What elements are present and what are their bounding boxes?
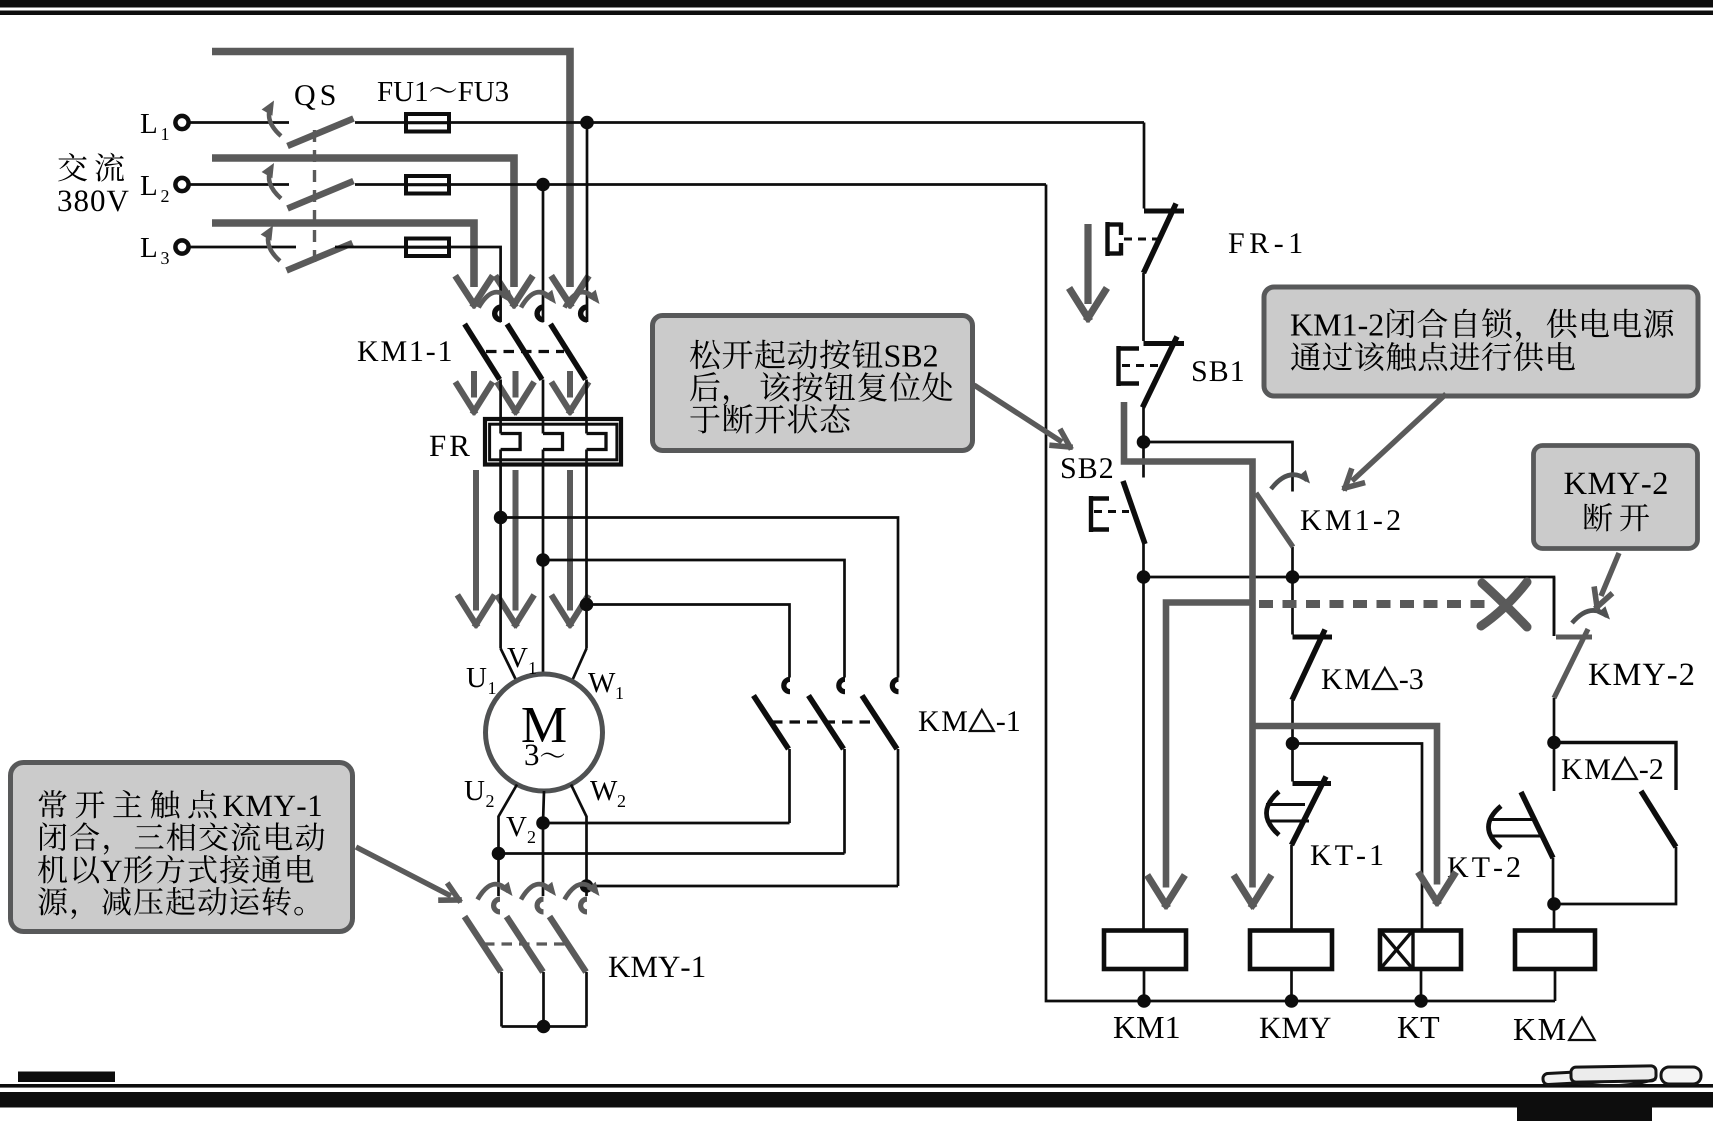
node E [1547, 736, 1561, 750]
node A below SB1 [1137, 435, 1151, 449]
label KT coil [1398, 1017, 1420, 1038]
border frame bottom lines [0, 1084, 1713, 1088]
button SB1 blade [1143, 337, 1178, 408]
wire node B to node C to KMY-2 branch [1144, 577, 1555, 636]
wire U2 to KMdelta-1 pole2 [499, 852, 845, 855]
wire KMdelta-1 pole1 to V2 node [788, 749, 791, 823]
wire L2 bus to control return column [449, 183, 1046, 186]
contactor KM1-1 pole1 blade [465, 324, 500, 380]
wire FR-1 to SB1 [1142, 273, 1145, 341]
wire L2 to QS [190, 183, 289, 186]
wire FR pole1 down [499, 465, 502, 649]
wire node F to KMdelta coil [1553, 904, 1556, 931]
gray arrow into KT coil [1420, 875, 1437, 902]
wire node D to KT branch [1293, 744, 1423, 931]
contactor KM1-1 pole3 terminal hook [581, 307, 587, 320]
contactor KMY-1 pole1 blade [465, 917, 502, 973]
wire KMdelta-2 branch bottom [1554, 847, 1676, 904]
switch QS pole2 arc arrow [269, 169, 281, 199]
wire KMdelta-1 pole2 to U2 node [843, 749, 846, 854]
wire KMY-1 pole2 down [542, 972, 545, 1027]
border frame bottom-right tab [1517, 1107, 1652, 1121]
label KMdelta-3 [1322, 669, 1342, 689]
wire KMY-2 to node E [1553, 698, 1556, 743]
label U1 [467, 668, 487, 687]
label SB1 [1193, 361, 1206, 381]
callout box KMY-1 star start (left) [11, 763, 353, 932]
contactor KM1-1 link (dashed) [486, 350, 564, 353]
wire W2 to KMdelta-1 pole3 [587, 885, 899, 888]
coil KMdelta [1515, 931, 1595, 970]
contactor KMY-1 pole3 terminal hook [581, 899, 587, 912]
contactor KMdelta-1 link (dashed) [772, 720, 880, 723]
motor label M [522, 708, 565, 742]
contact KMdelta-2 blade [1641, 791, 1676, 847]
wire KM1-1 pole2 to FR [542, 380, 545, 434]
wire gray feed L1 (highlighted) [212, 52, 570, 288]
SB1 actuator link (dashed) [1122, 364, 1161, 367]
wire L2 return column and bottom rail [1046, 185, 1555, 1002]
label L1 [141, 114, 156, 133]
wire SB1 to node A [1142, 408, 1145, 443]
contactor KM1-1 pole2 arc arrow [521, 292, 552, 307]
contactor KMY-1 pole3 arc arrow [565, 884, 596, 899]
button SB1 stop bar [1144, 341, 1185, 346]
gray current arrows below FR [473, 470, 479, 611]
label FR [430, 436, 445, 456]
switch QS pole3 blade [287, 243, 353, 271]
terminal L2 [175, 178, 188, 191]
contactor KM1-1 pole1 terminal hook [495, 307, 501, 320]
wire KM1-1 pole1 to FR [499, 380, 502, 434]
wire node A to KM1-2 branch [1144, 442, 1293, 492]
label KMdelta coil [1514, 1019, 1536, 1040]
wire motor V2 out [543, 791, 544, 896]
chalk pieces decoration [1543, 1066, 1701, 1086]
gray current arrow at FR-1 [1084, 224, 1091, 304]
wire FR pole2 down [542, 465, 545, 674]
relay FR box [485, 419, 621, 465]
wire motor W2 out [571, 785, 587, 897]
contact KMY-2 seat tick (gray) [1556, 635, 1592, 640]
wire L3 to QS [190, 246, 296, 249]
node B [1137, 570, 1151, 584]
node U2 [492, 847, 506, 861]
coil KT with X box [1380, 931, 1461, 970]
contactor KMdelta-1 pole1 blade [754, 696, 789, 750]
contactor KMY-1 pole2 blade [507, 917, 544, 973]
node F [1547, 897, 1561, 911]
contactor KM1-1 pole2 blade [507, 324, 542, 380]
node KMY rail [1285, 994, 1299, 1008]
switch QS pole1 arc arrow [269, 106, 281, 136]
wire KM1-2 lower [1291, 547, 1294, 577]
wire motor U2 out [499, 785, 518, 897]
label KMdelta-1 [919, 711, 939, 731]
motor M 3~ circle [486, 674, 603, 791]
relay FR heater element pole2 [543, 434, 563, 450]
wire SB2 to node B [1142, 544, 1145, 577]
node L1 branch [580, 116, 594, 130]
wire KMdelta-1 pole3 to W2 node [897, 749, 900, 886]
wire U1 branch to KMdelta-1 pole3 [501, 518, 898, 678]
callout box KM1-2 self-lock (right) [1264, 287, 1698, 396]
label W1 [588, 673, 615, 692]
label KMY-1 [609, 957, 630, 977]
contact KT-2 upper wire [1553, 743, 1556, 792]
switch QS pole3 arc arrow [268, 231, 280, 261]
wire L1 control column down [1143, 123, 1146, 209]
contact KT-1 blade [1292, 777, 1327, 846]
node KM1 rail [1137, 994, 1151, 1008]
gray branch to KT coil [1253, 726, 1438, 885]
contact KT-1 delay symbol [1267, 792, 1280, 836]
arrow from KMY-2 box to KMY-2 contact [1601, 553, 1619, 596]
X mark on blocked path [1482, 583, 1527, 627]
wire KT-2 to node F [1552, 858, 1555, 904]
contact KMY-2 arc arrow [1572, 610, 1607, 623]
contact KM1-2 blade (gray, closed) [1256, 493, 1293, 547]
node V2 [536, 816, 550, 830]
wire L3 to KM1-1 pole1 [449, 247, 501, 322]
callout box KMY-2 open (small right) [1534, 446, 1698, 549]
label KMY coil [1260, 1018, 1281, 1038]
relay FR heater element pole3 [587, 434, 607, 450]
contact KMY-2 upper wire [1553, 577, 1556, 636]
contact FR-1 stop bar [1144, 209, 1184, 214]
label KMY-2 [1589, 664, 1611, 685]
callout box SB2 released (middle) [653, 316, 973, 451]
wire KT coil to rail [1420, 969, 1423, 1001]
wire QS1 to FU1 [355, 121, 406, 124]
wire KMY-1 pole1 down [500, 972, 503, 1027]
wire KMdelta-3 to node D [1291, 700, 1294, 744]
label L2 [141, 176, 156, 195]
contactor KMY-1 pole1 arc arrow [478, 884, 509, 899]
label KT-1 [1311, 845, 1331, 865]
contact KMdelta-2 branch top [1554, 743, 1676, 791]
wire KT-1 to KMY coil [1290, 845, 1293, 931]
node star point [537, 1020, 551, 1034]
label KM1-1 [358, 341, 378, 361]
arrow from middle box to SB2 [974, 385, 1062, 442]
label QS [295, 85, 315, 110]
wire W1 into motor [572, 649, 587, 682]
contactor KMY-1 link (dashed) [484, 942, 565, 945]
gray arrow into KM1 coil [1149, 878, 1166, 905]
node L2 branch [536, 178, 550, 192]
contactor KMY-1 pole2 terminal hook [537, 899, 543, 912]
button SB2 actuator [1089, 496, 1093, 532]
contact FR-1 blade [1144, 204, 1177, 274]
contactor KM1-1 pole3 arc arrow [565, 292, 596, 307]
terminal L3 [175, 240, 188, 253]
label FR-1 [1229, 233, 1244, 253]
contact KT-1 upper wire and tick [1291, 744, 1294, 782]
label U2 [465, 781, 485, 800]
button SB1 actuator [1116, 346, 1120, 386]
contactor KMdelta-1 pole2 blade [809, 696, 844, 750]
gray dashed blocked path to KMY-2 [1259, 600, 1492, 608]
button SB2 blade [1123, 481, 1145, 544]
wire L1 bus to control column [449, 121, 1144, 124]
wire W1 branch to KMdelta-1 pole1 [587, 605, 790, 678]
contact KMdelta-3 stop bar [1293, 635, 1333, 640]
gray current path around SB2 through KM1-2 [1124, 402, 1253, 888]
terminal L1 [175, 116, 188, 129]
node W1 branch [580, 598, 594, 612]
label KM1 coil [1114, 1017, 1136, 1038]
wire FR pole3 down [585, 465, 588, 649]
border frame top bars [0, 0, 1713, 8]
wire L2 down to KM1-1 pole2 [542, 185, 545, 323]
node V1 branch [536, 553, 550, 567]
gray current arrows between KM1-1 and FR [471, 371, 477, 398]
wire KM1 coil to rail [1143, 969, 1146, 1001]
contact KT-2 blade [1521, 792, 1553, 858]
switch QS pole1 blade [288, 119, 354, 147]
contactor KM1-1 pole2 terminal hook [537, 307, 543, 320]
contactor KMdelta-1 pole3 terminal hook [892, 679, 898, 691]
switch QS mechanical link (dashed) [313, 130, 316, 262]
fuse FU1 [406, 114, 449, 132]
wire node B down to KM1 coil [1142, 577, 1145, 931]
switch QS pole2 blade [288, 181, 354, 209]
label AC 380V [58, 153, 87, 181]
label SB2 [1062, 458, 1075, 478]
button SB2 upper wire [1142, 442, 1145, 478]
arrow from left box to KMY-1 [356, 847, 451, 896]
wire KM1-1 pole3 to FR [585, 380, 588, 434]
wire L1 down to KM1-1 pole3 [586, 123, 589, 323]
wire V2 to KMdelta-1 pole1 [543, 822, 790, 825]
label KMdelta-2 [1562, 759, 1582, 779]
label FU1-FU3 [378, 82, 392, 101]
relay FR trip actuator [1105, 222, 1109, 256]
wire star point tie [502, 1025, 587, 1028]
node U1 branch [494, 511, 508, 525]
wire KMdelta coil to rail [1554, 969, 1557, 1001]
SB2 actuator link (dashed) [1094, 510, 1129, 513]
contact KM1-2 arc arrow [1271, 475, 1307, 489]
label V2 [506, 817, 526, 836]
wire V1 branch to KMdelta-1 pole2 [543, 560, 845, 678]
wire KMY coil to rail [1290, 969, 1293, 1001]
contactor KMY-1 pole3 blade [550, 917, 587, 973]
label L3 [141, 238, 156, 257]
fuse FU2 [406, 176, 449, 194]
wire QS2 to FU2 [355, 183, 406, 186]
relay FR heater element pole1 [501, 434, 520, 450]
contactor KMdelta-1 pole3 blade [862, 696, 897, 750]
label W2 [590, 781, 617, 800]
contact KT-2 delay symbol [1489, 806, 1502, 848]
node D [1286, 737, 1300, 751]
contactor KMY-1 pole2 arc arrow [521, 884, 552, 899]
wire L1 to QS [190, 121, 289, 124]
gray branch to KM1 coil [1166, 603, 1253, 888]
contact KMdelta-3 blade [1292, 630, 1325, 701]
fuse FU3 [406, 239, 449, 257]
wire KMY-1 pole3 down [585, 972, 588, 1027]
contact KMY-2 blade (gray, open) [1554, 629, 1588, 698]
node W2 [580, 879, 594, 893]
contactor KMdelta-1 pole2 terminal hook [839, 679, 845, 691]
node KT rail [1414, 994, 1428, 1008]
coil KM1 [1104, 931, 1186, 970]
wire QS3 to FU3 [335, 246, 406, 249]
arrow from right box to KM1-2 [1352, 394, 1446, 481]
contactor KMY-1 pole1 terminal hook [494, 899, 500, 912]
wire U1 into motor [501, 649, 517, 682]
contactor KM1-1 pole1 arc arrow [479, 292, 510, 307]
wire gray feed L3 (highlighted) [212, 223, 474, 287]
label KM1-2 [1301, 510, 1321, 530]
node C below KM1-2 [1286, 570, 1300, 584]
motor label 3~ [525, 744, 538, 765]
label V1 [507, 648, 527, 667]
contact KMdelta-3 upper wire [1291, 577, 1294, 635]
contactor KM1-1 pole3 blade [551, 324, 586, 380]
wire gray feed L2 (highlighted) [212, 158, 514, 287]
bottom-left small black bar [18, 1072, 115, 1083]
coil KMY [1250, 931, 1332, 970]
gray arrow into KMY coil [1236, 878, 1253, 905]
FR-1 actuator link (dashed) [1124, 238, 1158, 241]
label KT-2 [1448, 857, 1468, 877]
contactor KMdelta-1 pole1 terminal hook [784, 679, 790, 691]
